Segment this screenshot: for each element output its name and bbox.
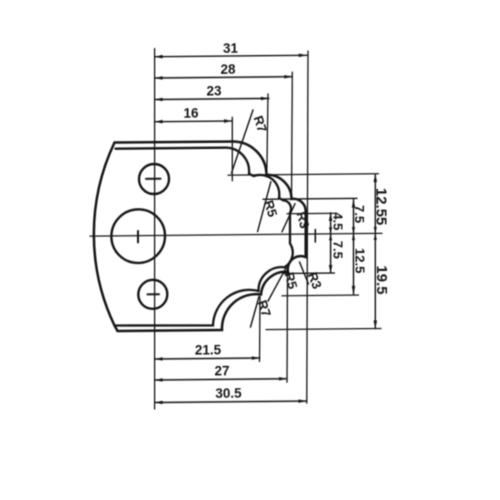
center mark top hole — [146, 178, 161, 180]
hole top small — [139, 164, 169, 194]
leader line R7 lower — [251, 297, 260, 328]
extension line 12.55 top — [228, 174, 379, 175]
svg-text:23: 23 — [206, 83, 222, 98]
svg-text:R5: R5 — [282, 271, 301, 291]
top dimension 28 — [155, 77, 293, 78]
svg-text:28: 28 — [220, 62, 236, 77]
svg-text:7.5: 7.5 — [352, 205, 367, 223]
center mark large hole — [137, 231, 139, 243]
svg-text:12.55: 12.55 — [373, 188, 390, 226]
extension line 19.5 bottom — [266, 328, 381, 329]
svg-text:21.5: 21.5 — [195, 342, 222, 357]
hole bottom small — [138, 280, 167, 309]
extension line 7.5 upper — [263, 197, 357, 200]
svg-text:7.5: 7.5 — [331, 241, 346, 259]
svg-text:31: 31 — [223, 41, 239, 56]
bottom dimension 21.5 — [155, 358, 260, 359]
leader line R3 upper — [282, 204, 295, 232]
extension line 21.5 right — [259, 297, 262, 362]
svg-text:4.5: 4.5 — [331, 212, 346, 230]
svg-text:30.5: 30.5 — [215, 386, 242, 401]
svg-text:R5: R5 — [261, 198, 280, 218]
top dimension 31 — [155, 55, 307, 56]
bottom dimension 30.5 — [155, 401, 307, 402]
top dimension 23 — [155, 98, 269, 99]
svg-text:R7: R7 — [255, 298, 274, 319]
extension line 31/30.5 right — [307, 51, 308, 403]
extension line 23 right — [267, 94, 268, 174]
extension line 12.5 — [282, 294, 359, 297]
horizontal centerline — [90, 233, 382, 236]
extension line 7.5 lower — [284, 272, 335, 274]
leader line R3 lower — [300, 262, 309, 284]
extension line 16 right — [231, 117, 233, 180]
svg-text:16: 16 — [183, 106, 199, 121]
top dimension 16 — [155, 120, 232, 123]
vertical reference line — [154, 49, 156, 410]
extension line 28 right — [291, 72, 294, 198]
bottom dimension 27 — [155, 379, 287, 380]
knife plate outer profile — [94, 141, 306, 332]
hole center large — [111, 209, 165, 263]
leader line R7 upper — [232, 110, 254, 173]
right dimension 4.5 / 7.5 chain line — [330, 213, 332, 273]
svg-text:12.5: 12.5 — [353, 248, 368, 273]
extension line 27 right — [286, 273, 289, 382]
leader line R5 lower — [268, 268, 286, 301]
centerline tick — [314, 230, 316, 242]
extension line 4.5 — [287, 212, 336, 214]
svg-text:27: 27 — [214, 363, 229, 378]
svg-text:19.5: 19.5 — [373, 265, 390, 294]
leader line R5 upper — [258, 182, 271, 232]
knife bevel heel inner line — [115, 147, 293, 326]
right dimension 7.5 / 12.5 chain line — [353, 200, 355, 294]
center mark bottom hole — [148, 293, 160, 295]
svg-text:R3: R3 — [294, 210, 313, 230]
right dimension 12.55 / 19.5 chain line — [374, 174, 376, 329]
